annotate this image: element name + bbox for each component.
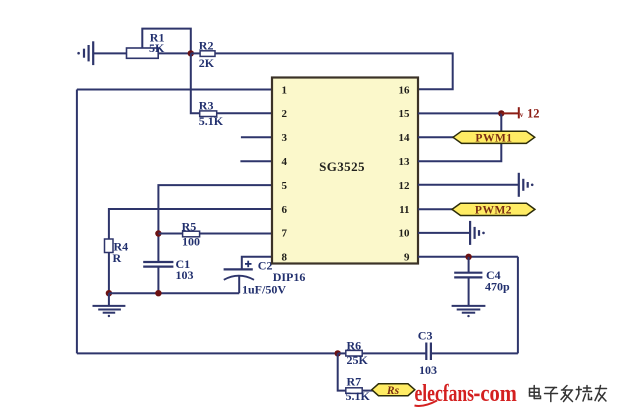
svg-text:1uF/50V: 1uF/50V (242, 283, 286, 297)
svg-text:2K: 2K (199, 56, 215, 70)
op-amp U1 SG3525 body (272, 78, 418, 264)
wire R2 right to pin 16 (215, 53, 453, 89)
svg-text:5: 5 (282, 180, 288, 192)
power +12 port (501, 107, 519, 118)
wire C4 bottom lead (468, 277, 470, 305)
wire pin 5 (158, 185, 272, 262)
svg-text:PWM2: PWM2 (475, 205, 512, 217)
svg-text:R3: R3 (199, 98, 214, 112)
capacitor C4 (454, 273, 482, 278)
junction node bottom rail (335, 350, 341, 356)
svg-text:11: 11 (399, 204, 409, 216)
wire pin 10 to ground G3 (418, 232, 470, 234)
wire R3 to pin 2 (217, 112, 272, 114)
capacitor C2 top plate (224, 268, 253, 270)
svg-text:C2: C2 (258, 259, 273, 273)
net flag PWM2 (452, 203, 535, 215)
resistor R1 body (127, 48, 159, 58)
svg-text:3: 3 (282, 132, 288, 144)
ground G3 (470, 221, 485, 245)
svg-text:6: 6 (282, 204, 288, 216)
svg-text:SG3525: SG3525 (319, 159, 365, 174)
watermark chinese 电子发烧友 (530, 386, 607, 402)
resistor R2 body (200, 51, 215, 57)
svg-text:1: 1 (282, 84, 288, 96)
svg-text:5K: 5K (149, 41, 165, 55)
net flag Rs (372, 384, 415, 396)
svg-text:R6: R6 (347, 338, 362, 352)
svg-text:13: 13 (399, 156, 411, 168)
svg-text:C3: C3 (418, 329, 433, 343)
junction node +12 (498, 110, 504, 116)
svg-text:2: 2 (282, 108, 288, 120)
wire bottom link R4 to C2 (109, 292, 239, 294)
svg-text:PWM1: PWM1 (475, 132, 512, 144)
wire junction to R2 (191, 52, 200, 54)
svg-text:Rs: Rs (386, 385, 400, 397)
wire junction down to pin 13 (418, 113, 501, 161)
resistor R3 body (200, 111, 217, 117)
resistor R4 body (105, 239, 114, 253)
ground G4 below C4 (452, 306, 486, 317)
svg-text:elecfans: elecfans (415, 381, 475, 407)
wire R5 to pin 7 (200, 233, 272, 235)
capacitor C2 curved plate (224, 276, 254, 280)
wire junction down to R3 (191, 53, 200, 113)
svg-text:9: 9 (404, 252, 410, 264)
junction node C1 bottom (155, 290, 161, 296)
wire C4 top lead (468, 257, 470, 273)
svg-text:14: 14 (399, 132, 411, 144)
发 (562, 389, 573, 391)
wire left rail vertical (76, 90, 78, 354)
svg-text:15: 15 (399, 108, 411, 120)
svg-text:12: 12 (399, 180, 411, 192)
ground G2 (519, 173, 534, 197)
svg-text:4: 4 (282, 156, 288, 168)
wire junction down to R7 (338, 353, 346, 390)
友 (596, 388, 607, 390)
capacitor C1 (143, 262, 173, 267)
wire pin 9 (418, 256, 518, 258)
wire ground G1 to R1 left (93, 52, 126, 54)
svg-text:103: 103 (419, 363, 437, 377)
junction node C4 top (465, 254, 471, 260)
wire junction to R6 (338, 352, 346, 354)
svg-text:16: 16 (399, 84, 411, 96)
svg-text:com: com (480, 381, 517, 407)
svg-text:10: 10 (399, 228, 411, 240)
wire pin 15 to +12 junction (418, 112, 501, 114)
wire pin 11 to PWM2 (418, 208, 453, 210)
wire C3 to right rail (432, 352, 518, 354)
junction node R4 bottom (106, 290, 112, 296)
capacitor C2 plus mark (245, 261, 252, 268)
pin 3 stub (241, 136, 272, 138)
wire R4 bottom to ground node (108, 253, 110, 294)
wire pin 8 to C2 (242, 257, 272, 270)
svg-text:8: 8 (282, 252, 288, 264)
capacitor C3 (426, 343, 431, 361)
wire R6 to C3 (362, 352, 425, 354)
svg-text:R2: R2 (199, 39, 214, 53)
子 (546, 387, 557, 389)
wire C1 bottom (157, 267, 159, 294)
wire R1 right to junction (158, 52, 191, 54)
wire pin 14 to PWM1 (418, 136, 454, 138)
svg-text:v: v (520, 111, 524, 119)
wire R5 left (158, 233, 182, 235)
电 (530, 389, 540, 397)
wire bottom rail (77, 352, 338, 354)
junction node at R1/R2 (188, 50, 194, 56)
wire C2 bottom stub (238, 276, 240, 293)
pin 4 stub (240, 160, 272, 162)
svg-text:R5: R5 (182, 219, 197, 233)
wire R1 wiper loop (142, 29, 191, 54)
wire R7 to Rs flag (362, 390, 373, 392)
svg-text:100: 100 (182, 234, 200, 248)
wire pin 1 to left rail (77, 89, 272, 91)
wire right rail (517, 257, 519, 354)
net flag PWM1 (453, 131, 535, 143)
烧 (578, 387, 580, 395)
resistor R7 body (346, 388, 362, 394)
svg-text:103: 103 (176, 268, 194, 282)
resistor R5 body (183, 231, 200, 237)
wire pin 12 to ground G2 (418, 184, 519, 186)
ground G1 top-left (77, 41, 93, 65)
resistor R6 body (346, 350, 362, 356)
watermark elecfans.com (415, 381, 517, 407)
svg-text:R: R (113, 251, 122, 265)
svg-text:R7: R7 (347, 374, 362, 388)
wire pin 6 (109, 209, 272, 239)
svg-text:470p: 470p (485, 279, 510, 293)
svg-text:7: 7 (282, 228, 288, 240)
svg-text:5.1K: 5.1K (199, 114, 224, 128)
junction node at R5 tap (155, 230, 161, 236)
svg-text:DIP16: DIP16 (273, 270, 306, 284)
ground G5 below R4 (93, 293, 126, 317)
svg-text:12: 12 (527, 107, 540, 121)
svg-text:25K: 25K (347, 353, 369, 367)
